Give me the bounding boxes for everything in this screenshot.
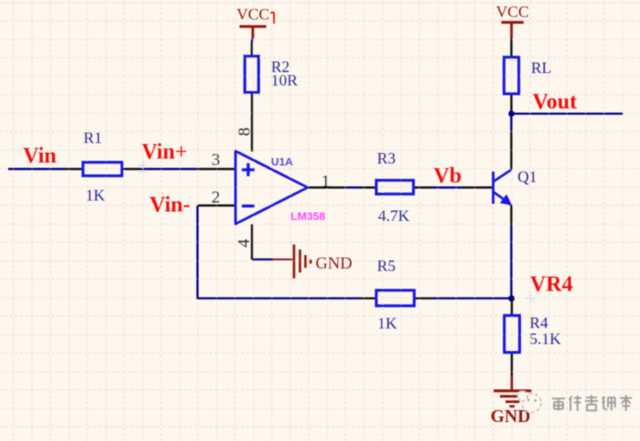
svg-text:10R: 10R — [271, 73, 298, 90]
pin number 8 (rotated) — [235, 128, 254, 137]
marker cross (faint) — [527, 295, 536, 303]
wire RL to junction (navy) — [510, 111, 512, 114]
label U1A — [271, 157, 293, 169]
wire R3 to Q1 base (navy) — [433, 186, 462, 188]
pin number 4 (rotated) — [234, 239, 253, 248]
svg-text:R5: R5 — [377, 258, 396, 275]
transistor Q1 — [493, 170, 511, 205]
svg-text:Vout: Vout — [533, 89, 578, 114]
wire R5 to junction (navy) — [433, 297, 512, 299]
watermark logo — [518, 391, 542, 413]
resistor R5 pins (black) — [359, 297, 433, 299]
label R4 — [530, 315, 549, 332]
resistor R4 — [504, 316, 519, 353]
net label GND (bottom) — [491, 406, 531, 426]
wire Vout to right (navy) — [511, 113, 623, 115]
value LM358 — [291, 211, 326, 223]
value 10R (R2) — [271, 73, 298, 90]
svg-text:4: 4 — [234, 239, 253, 248]
svg-text:8: 8 — [235, 128, 254, 137]
svg-text:LM358: LM358 — [291, 211, 326, 223]
net label Vb — [434, 163, 462, 188]
value 4.7K (R3) — [378, 208, 410, 225]
wire stub below VCC (navy) — [251, 39, 253, 44]
svg-text:3: 3 — [212, 150, 221, 169]
svg-text:GND: GND — [316, 254, 353, 273]
pin number 3 — [212, 150, 221, 169]
marker cross (faint, near Vin+) — [139, 161, 148, 172]
Q1 emitter wire (black) — [510, 205, 512, 227]
svg-text:RL: RL — [531, 60, 551, 77]
wire pin4 to ground (navy) — [253, 258, 274, 260]
net label VCC (left) — [237, 7, 270, 24]
label R3 — [377, 151, 396, 168]
transistor Q1 base pin (black) — [462, 186, 493, 188]
svg-text:Vin-: Vin- — [150, 192, 191, 217]
resistor RL pins (black) — [510, 38, 512, 111]
resistor R1 — [83, 162, 122, 176]
label Q1 — [518, 169, 538, 186]
power symbol VCC (right) — [501, 22, 523, 38]
svg-text:R1: R1 — [84, 130, 103, 147]
svg-text:2: 2 — [212, 188, 221, 207]
resistor R3 pins (black) — [361, 186, 433, 188]
value 1K (R5) — [378, 316, 398, 333]
svg-text:Vin+: Vin+ — [142, 139, 188, 164]
label R5 — [377, 258, 396, 275]
value 1K (R1) — [86, 188, 106, 205]
wire Vin input (navy) — [8, 168, 198, 170]
svg-text:VCC: VCC — [496, 4, 529, 21]
net label Vin- — [150, 192, 191, 217]
net label VCC (right) — [496, 4, 529, 21]
svg-text:R3: R3 — [377, 151, 396, 168]
resistor R2 — [245, 56, 259, 92]
pin number 1 — [322, 172, 331, 191]
power symbol VCC (left) — [240, 27, 267, 39]
svg-text:1K: 1K — [378, 316, 398, 333]
label R2 — [271, 59, 290, 76]
svg-text:VR4: VR4 — [530, 271, 573, 296]
junction VR4 node — [508, 295, 514, 301]
op-amp U1A — [236, 151, 308, 224]
wire junction down (navy) — [510, 114, 512, 132]
resistor R5 — [376, 290, 414, 306]
resistor R2 pins (black) — [251, 44, 253, 57]
svg-text:Vin: Vin — [23, 143, 56, 168]
svg-text:5.1K: 5.1K — [530, 331, 562, 348]
svg-text:R4: R4 — [530, 315, 549, 332]
pin number 2 — [212, 188, 221, 207]
svg-text:1K: 1K — [86, 188, 106, 205]
wire emitter to VR4 junction (navy) — [510, 226, 512, 298]
net label GND (left) — [316, 254, 353, 273]
resistor RL — [504, 57, 519, 94]
label R1 — [84, 130, 103, 147]
svg-text:Vb: Vb — [434, 163, 462, 188]
svg-text:U1A: U1A — [271, 157, 293, 169]
resistor R3 — [376, 180, 413, 194]
op-amp pin 1 output wire (black) — [308, 186, 346, 188]
svg-text:4.7K: 4.7K — [378, 208, 410, 225]
svg-text:Q1: Q1 — [518, 169, 538, 186]
red cursor mark — [271, 12, 275, 23]
junction Vout node — [508, 111, 514, 117]
label RL — [531, 60, 551, 77]
op-amp pin 8 wire (black) — [251, 92, 253, 151]
wire pin1 to R3 (navy) — [345, 186, 361, 188]
op-amp U1 pin 2 (black) — [198, 204, 237, 206]
svg-text:1: 1 — [322, 172, 331, 191]
resistor R1 pins (black) — [65, 168, 142, 170]
wire feedback from pin 2 to R5 (navy) — [198, 206, 360, 299]
value 5.1K (R4) — [530, 331, 562, 348]
net label Vin — [23, 143, 56, 168]
ground symbol GND (bottom, earth) — [494, 376, 532, 406]
svg-text:VCC: VCC — [237, 7, 270, 24]
net label Vin+ — [142, 139, 188, 164]
watermark text (Chinese glyph strokes) — [552, 395, 632, 411]
net label Vout — [533, 89, 578, 114]
wire to Q1 collector (black) — [510, 131, 512, 169]
ground symbol GND (left, rotated earth) — [273, 245, 311, 279]
net label VR4 — [530, 271, 573, 296]
op-amp pin 4 wire (black) — [252, 224, 253, 260]
resistor R4 pins (black) — [511, 298, 513, 376]
op-amp U1 pin 3 (black) — [198, 168, 237, 170]
